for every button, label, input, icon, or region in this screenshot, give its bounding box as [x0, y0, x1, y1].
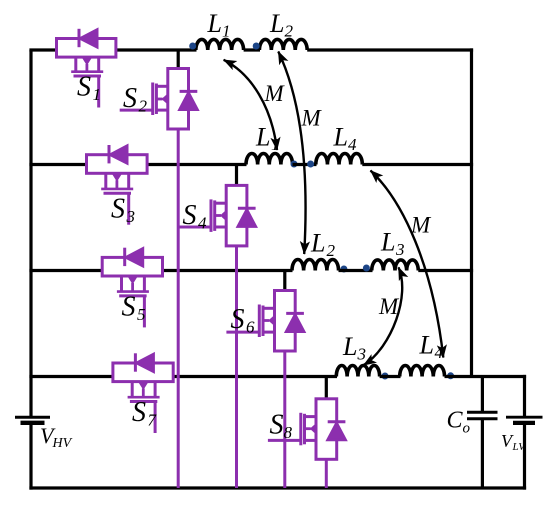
mosfet S7 body arrow [139, 383, 148, 390]
mosfet S5 channel bar [117, 290, 149, 293]
mosfet S2 channel bar [155, 84, 158, 115]
svg-text:L: L [342, 332, 357, 361]
svg-text:C: C [447, 408, 464, 434]
svg-text:L: L [380, 228, 395, 257]
dot L3 row3 [363, 265, 370, 272]
mosfet S7 gate lead [154, 402, 157, 434]
dot L4 row2 [307, 161, 314, 168]
mosfet S5 body rect [102, 257, 162, 276]
battery VLV plate long [506, 416, 543, 419]
wire VLV branch upper [523, 375, 526, 416]
inductor L4 row2 winding [316, 153, 363, 164]
mosfet S8 gate lead [268, 439, 301, 442]
wire row2 segment c [293, 163, 317, 166]
mosfet S8 stub top [305, 415, 317, 418]
wire VLV branch lower [523, 425, 526, 490]
mosfet S3 channel bar [101, 188, 133, 191]
mosfet S6 gate lead [226, 331, 259, 334]
mosfet S4 stub bottom [215, 226, 227, 229]
inductor L3 row3 winding [372, 260, 419, 271]
coupling arrow M L3row3-L3row4 [364, 267, 403, 365]
mosfet S7 channel bar [128, 396, 160, 399]
svg-text:S: S [132, 397, 146, 428]
capacitor Co plate top [467, 411, 498, 414]
coupling arrow M L4row2-L4row4 [371, 171, 444, 358]
mosfet S1 body rect [57, 39, 116, 58]
mosfet S6 stub top [263, 307, 275, 310]
mosfet S3 stub right [127, 173, 130, 189]
svg-text:S: S [270, 410, 284, 441]
mosfet S4 diode triangle [238, 210, 255, 227]
wire row1 segment d [307, 48, 473, 51]
svg-text:S: S [123, 83, 137, 114]
mosfet S7 body rect [113, 363, 173, 382]
svg-text:L: L [269, 9, 284, 38]
mosfet S6 source lead [283, 351, 286, 488]
battery VHV plate short [21, 421, 45, 425]
inductor L4 row4 winding [400, 366, 445, 377]
dot L1 row2 [291, 161, 298, 168]
mosfet S6 body arrow [268, 315, 275, 327]
svg-text:2: 2 [327, 241, 336, 260]
inductor L1 row2 winding [246, 153, 293, 164]
wire row4 segment a [29, 375, 113, 378]
mosfet S4 source lead [235, 246, 238, 488]
wire S8 drain tap [325, 377, 328, 399]
wire S6 drain tap [283, 271, 286, 291]
wire row2 segment a [29, 163, 87, 166]
mosfet S7 stub left [131, 382, 134, 398]
mosfet S2 stub bottom [156, 109, 167, 112]
mosfet S2 stub top [156, 85, 167, 88]
svg-text:4: 4 [348, 135, 357, 154]
svg-text:M: M [378, 294, 400, 319]
svg-text:L: L [333, 123, 348, 152]
mosfet S7 gate bar [130, 400, 157, 403]
mosfet S5 gate lead [143, 296, 146, 328]
svg-text:4: 4 [198, 214, 207, 233]
svg-text:3: 3 [395, 240, 405, 259]
svg-text:L: L [419, 331, 434, 360]
mosfet S5 diode triangle [126, 249, 143, 266]
mosfet S4 body arrow [220, 210, 227, 222]
svg-text:M: M [410, 213, 432, 238]
battery VLV plate short [513, 421, 535, 425]
svg-text:S: S [231, 304, 245, 335]
mosfet S5 gate bar [119, 294, 146, 297]
mosfet S5 stub left [120, 276, 123, 292]
mosfet S8 stub bottom [305, 439, 317, 442]
wire row3 segment d [418, 269, 473, 272]
wire row4 segment b [173, 375, 337, 378]
mosfet S8 source lead [325, 459, 328, 488]
wire Co branch lower [481, 420, 484, 489]
svg-text:S: S [122, 292, 136, 323]
svg-text:5: 5 [137, 305, 146, 324]
svg-text:o: o [463, 421, 471, 437]
svg-text:M: M [301, 106, 323, 131]
wire right rail [470, 48, 473, 376]
dot L3 row4 [382, 373, 389, 380]
wire bottom bus [29, 486, 526, 489]
mosfet S1 gate lead [97, 76, 100, 108]
svg-text:S: S [183, 200, 197, 231]
mosfet S6 diode triangle [286, 315, 303, 332]
mosfet S4 stub top [215, 202, 227, 205]
mosfet S7 stub right [154, 382, 157, 398]
mosfet S1 stub left [74, 56, 77, 72]
mosfet S3 gate lead [127, 193, 130, 225]
svg-text:2: 2 [285, 22, 294, 41]
mosfet S3 body arrow [112, 174, 121, 181]
wire row1 segment b [116, 48, 197, 51]
dot L2 row3 [340, 266, 347, 273]
dot L1 row1 [189, 43, 196, 50]
wire row2 segment d [362, 163, 473, 166]
mosfet S7 diode triangle [137, 354, 154, 371]
mosfet S2 gate lead [120, 109, 153, 112]
mosfet S1 diode bar [78, 29, 81, 47]
mosfet S4 gate lead [178, 226, 211, 229]
wire S2 drain tap [177, 50, 180, 69]
mosfet S3 diode triangle [111, 146, 128, 163]
mosfet S4 channel bar [213, 200, 216, 231]
mosfet S6 diode bar [286, 312, 304, 315]
svg-text:S: S [111, 194, 125, 225]
wire row1 segment a [29, 48, 57, 51]
mosfet S2 diode bar [180, 90, 198, 93]
mosfet S5 stub right [143, 276, 146, 292]
wire Co branch upper [481, 377, 484, 412]
mosfet S2 source lead [177, 129, 180, 488]
svg-text:S: S [77, 72, 91, 103]
svg-text:2: 2 [139, 97, 148, 116]
wire row4 segment c [380, 375, 401, 378]
mosfet S6 stub bottom [263, 331, 275, 334]
svg-text:6: 6 [246, 318, 255, 337]
mosfet S1 body arrow [82, 58, 91, 65]
mosfet S1 channel bar [71, 70, 103, 73]
wire row3 segment c [339, 269, 373, 272]
mosfet S6 channel bar [262, 306, 265, 337]
svg-text:L: L [310, 229, 325, 258]
mosfet S2 diode triangle [180, 93, 197, 110]
inductor L2 row1 winding [259, 39, 307, 50]
coupling arrow M L1row1-L1row2 [224, 60, 277, 150]
mosfet S8 diode bar [328, 420, 346, 423]
mosfet S3 stub left [104, 173, 107, 189]
mosfet S6 body rect [275, 291, 296, 352]
mosfet S5 diode bar [123, 248, 126, 266]
inductor L3 row4 winding [336, 365, 379, 376]
svg-text:3: 3 [357, 345, 367, 364]
dot L2 row1 [253, 43, 260, 50]
coupling arrow M L2row1-L2row3 [278, 52, 305, 255]
mosfet S8 channel bar [303, 414, 306, 445]
wire row1 segment c [244, 48, 260, 51]
svg-text:M: M [264, 81, 286, 106]
mosfet S1 diode triangle [81, 30, 98, 47]
dot L4 row4 [447, 372, 454, 379]
mosfet S2 body rect [168, 69, 189, 130]
mosfet S3 gate bar [104, 192, 132, 195]
mosfet S8 diode triangle [328, 423, 345, 440]
mosfet S1 gate bar [74, 75, 102, 78]
mosfet S5 body arrow [128, 277, 137, 284]
inductor L2 row3 winding [292, 259, 339, 270]
mosfet S3 body rect [87, 155, 148, 174]
svg-text:1: 1 [93, 85, 102, 104]
mosfet S4 gate bar [210, 199, 213, 232]
wire row3 segment a [29, 269, 102, 272]
mosfet S4 body rect [226, 185, 247, 246]
wire left rail upper [29, 50, 32, 416]
svg-text:1: 1 [222, 22, 231, 41]
mosfet S2 gate bar [151, 83, 154, 116]
mosfet S2 body arrow [162, 93, 169, 105]
svg-text:HV: HV [52, 436, 73, 451]
svg-text:L: L [255, 123, 270, 152]
wire row4 segment d [445, 375, 527, 378]
wire row3 segment b [163, 269, 293, 272]
mosfet S6 gate bar [258, 305, 261, 338]
mosfet S4 diode bar [238, 207, 256, 210]
wire S4 drain tap [235, 165, 238, 186]
wire row2 segment b [147, 163, 247, 166]
inductor L1 row1 winding [196, 39, 244, 50]
capacitor Co plate bottom [467, 417, 498, 420]
mosfet S8 gate bar [299, 413, 302, 446]
svg-text:3: 3 [126, 207, 136, 226]
battery VHV plate long [15, 416, 50, 419]
mosfet S8 body rect [316, 399, 337, 460]
mosfet S8 body arrow [310, 423, 317, 435]
wire left rail lower [29, 425, 32, 490]
svg-text:8: 8 [284, 423, 293, 442]
mosfet S7 diode bar [134, 353, 137, 371]
mosfet S3 diode bar [108, 145, 111, 163]
svg-text:L: L [207, 9, 222, 38]
mosfet S1 stub right [97, 56, 100, 72]
